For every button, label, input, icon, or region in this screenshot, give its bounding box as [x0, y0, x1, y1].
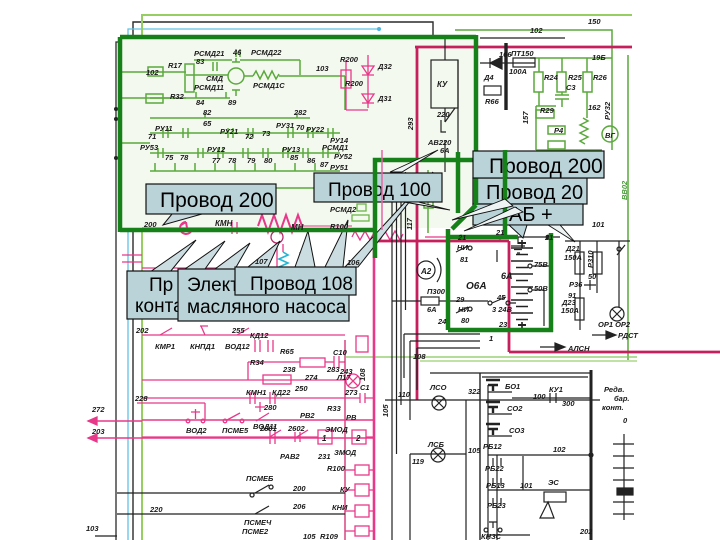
svg-text:КД12: КД12	[250, 331, 269, 340]
svg-text:23: 23	[498, 320, 508, 329]
svg-text:Редв.: Редв.	[604, 385, 624, 394]
svg-text:101: 101	[520, 481, 533, 490]
svg-text:50: 50	[588, 272, 597, 281]
svg-text:РУ53: РУ53	[140, 143, 159, 152]
svg-text:200: 200	[292, 484, 306, 493]
svg-text:С1: С1	[360, 383, 370, 392]
svg-text:КУ: КУ	[437, 80, 448, 89]
svg-text:19Б: 19Б	[592, 53, 606, 62]
svg-text:НИ: НИ	[458, 305, 469, 314]
svg-text:157: 157	[521, 111, 530, 124]
svg-text:24: 24	[437, 317, 447, 326]
svg-text:102: 102	[146, 68, 159, 77]
svg-text:А2: А2	[420, 267, 432, 276]
svg-text:РВ: РВ	[346, 413, 357, 422]
svg-text:ПСМЕЧ: ПСМЕЧ	[244, 518, 272, 527]
svg-text:ВОД11: ВОД11	[253, 422, 277, 431]
svg-text:231: 231	[317, 452, 331, 461]
svg-text:РУ31: РУ31	[276, 121, 294, 130]
svg-text:228: 228	[134, 394, 148, 403]
svg-text:46: 46	[232, 48, 242, 57]
svg-text:2: 2	[355, 434, 361, 443]
svg-text:322: 322	[468, 387, 481, 396]
svg-text:100: 100	[533, 392, 546, 401]
svg-text:АЛСН: АЛСН	[567, 344, 590, 353]
svg-text:105: 105	[468, 446, 481, 455]
svg-text:77: 77	[212, 156, 221, 165]
svg-text:101: 101	[592, 220, 605, 229]
svg-text:202: 202	[579, 527, 593, 536]
svg-text:R100: R100	[330, 222, 349, 231]
svg-text:Провод 108: Провод 108	[250, 274, 353, 295]
svg-text:Р4: Р4	[554, 126, 564, 135]
svg-text:Провод 100: Провод 100	[328, 180, 431, 201]
svg-text:РСМД22: РСМД22	[251, 48, 282, 57]
svg-text:ЭС: ЭС	[548, 478, 559, 487]
svg-text:СО2: СО2	[507, 404, 523, 413]
svg-text:РВ2: РВ2	[300, 411, 315, 420]
svg-text:103: 103	[86, 524, 99, 533]
svg-text:R33: R33	[327, 404, 342, 413]
svg-text:79: 79	[247, 156, 256, 165]
svg-text:6А: 6А	[440, 146, 450, 155]
svg-text:РУ52: РУ52	[334, 152, 353, 161]
svg-text:ПСМЕБ: ПСМЕБ	[246, 474, 274, 483]
svg-text:ПСМЕ5: ПСМЕ5	[222, 426, 249, 435]
svg-text:84: 84	[196, 98, 205, 107]
svg-text:РУ11: РУ11	[155, 124, 173, 133]
svg-text:105: 105	[303, 532, 316, 540]
svg-text:72: 72	[245, 132, 254, 141]
svg-text:РСМД1С: РСМД1С	[253, 81, 285, 90]
svg-text:108: 108	[358, 368, 367, 381]
svg-text:73: 73	[262, 129, 271, 138]
svg-text:Д21: Д21	[565, 244, 580, 253]
svg-text:81: 81	[460, 255, 468, 264]
svg-text:МН: МН	[291, 223, 304, 232]
svg-text:ПСМЕ2: ПСМЕ2	[242, 527, 269, 536]
svg-text:203: 203	[91, 427, 105, 436]
svg-text:220: 220	[149, 505, 163, 514]
svg-text:21: 21	[495, 228, 504, 237]
svg-text:75: 75	[165, 153, 174, 162]
svg-text:РУ51: РУ51	[330, 163, 348, 172]
svg-text:Д4: Д4	[483, 73, 494, 82]
svg-text:119: 119	[412, 457, 425, 466]
svg-text:РУ21: РУ21	[220, 127, 238, 136]
svg-text:21: 21	[457, 233, 466, 242]
svg-text:78: 78	[228, 156, 237, 165]
svg-text:110: 110	[398, 390, 411, 399]
svg-text:ВВ02: ВВ02	[620, 180, 629, 200]
svg-text:Р310: Р310	[586, 250, 595, 268]
svg-text:КМР1: КМР1	[155, 342, 175, 351]
svg-text:ВГ: ВГ	[605, 131, 615, 140]
svg-text:29: 29	[455, 295, 465, 304]
svg-text:293: 293	[406, 117, 415, 131]
svg-text:89: 89	[228, 98, 237, 107]
svg-text:СО3: СО3	[509, 426, 525, 435]
svg-text:87: 87	[320, 160, 329, 169]
svg-text:162: 162	[588, 103, 601, 112]
svg-text:РСМД11: РСМД11	[194, 83, 224, 92]
svg-text:45: 45	[496, 293, 506, 302]
svg-text:Пр: Пр	[149, 275, 173, 296]
svg-text:РБ13: РБ13	[486, 481, 505, 490]
svg-text:R65: R65	[280, 347, 295, 356]
svg-text:РБ22: РБ22	[485, 464, 504, 473]
svg-text:ПТ150: ПТ150	[511, 49, 534, 58]
svg-text:150А: 150А	[564, 253, 582, 262]
svg-text:ОР1 ОР2: ОР1 ОР2	[598, 320, 631, 329]
svg-text:117: 117	[405, 217, 414, 230]
svg-text:82: 82	[203, 108, 212, 117]
svg-text:R25: R25	[568, 73, 583, 82]
svg-text:105: 105	[381, 404, 390, 417]
svg-text:конта: конта	[135, 296, 184, 317]
svg-text:бар.: бар.	[614, 394, 629, 403]
svg-text:250: 250	[294, 384, 308, 393]
svg-text:РУ22: РУ22	[306, 125, 325, 134]
svg-text:R200: R200	[345, 79, 364, 88]
svg-text:КНПД1: КНПД1	[190, 342, 215, 351]
svg-text:50В: 50В	[534, 284, 548, 293]
svg-text:R200: R200	[340, 55, 359, 64]
svg-text:21: 21	[544, 233, 553, 242]
svg-text:R66: R66	[485, 97, 500, 106]
svg-text:РСМД2: РСМД2	[330, 205, 357, 214]
svg-text:100А: 100А	[509, 67, 527, 76]
svg-text:80: 80	[461, 316, 470, 325]
svg-text:107: 107	[255, 257, 268, 266]
svg-text:ЛСО: ЛСО	[429, 383, 447, 392]
svg-text:РУ12: РУ12	[207, 145, 226, 154]
svg-text:ЗМОД: ЗМОД	[334, 448, 357, 457]
svg-text:КМН: КМН	[215, 219, 233, 228]
svg-text:R34: R34	[250, 358, 265, 367]
svg-text:6А: 6А	[427, 305, 437, 314]
svg-text:282: 282	[293, 108, 307, 117]
svg-text:2602: 2602	[287, 424, 306, 433]
svg-text:ВОД2: ВОД2	[186, 426, 207, 435]
svg-text:РАВ2: РАВ2	[280, 452, 300, 461]
svg-text:КНЗС: КНЗС	[481, 532, 502, 540]
svg-text:106: 106	[347, 258, 360, 267]
svg-text:255: 255	[231, 326, 245, 335]
svg-text:Р36: Р36	[569, 280, 583, 289]
svg-text:R17: R17	[168, 61, 183, 70]
svg-text:150: 150	[588, 17, 601, 26]
svg-text:КНИ: КНИ	[332, 503, 348, 512]
svg-text:272: 272	[91, 405, 105, 414]
svg-text:103: 103	[316, 64, 329, 73]
svg-text:R32: R32	[170, 92, 185, 101]
svg-text:СМД: СМД	[206, 74, 224, 83]
svg-text:65: 65	[203, 119, 212, 128]
svg-text:ЭМОД: ЭМОД	[325, 425, 348, 434]
svg-text:3 24В: 3 24В	[492, 305, 513, 314]
svg-text:150А: 150А	[561, 306, 579, 315]
svg-text:280: 280	[263, 403, 277, 412]
svg-text:R109: R109	[320, 532, 339, 540]
svg-text:220: 220	[436, 110, 450, 119]
svg-text:R26: R26	[593, 73, 608, 82]
svg-text:РДСТ: РДСТ	[618, 331, 639, 340]
svg-text:КМН1: КМН1	[246, 388, 266, 397]
svg-text:300: 300	[562, 399, 575, 408]
svg-text:70: 70	[296, 123, 305, 132]
svg-text:1: 1	[489, 334, 493, 343]
svg-text:С3: С3	[566, 83, 576, 92]
svg-text:206: 206	[292, 502, 306, 511]
svg-text:ЛСБ: ЛСБ	[427, 440, 445, 449]
svg-text:102: 102	[530, 26, 543, 35]
svg-text:масляного насоса: масляного насоса	[187, 297, 347, 318]
svg-text:108: 108	[413, 352, 426, 361]
svg-text:75В: 75В	[534, 260, 548, 269]
svg-text:238: 238	[282, 365, 296, 374]
svg-text:78: 78	[180, 153, 189, 162]
svg-text:85: 85	[290, 153, 299, 162]
svg-text:О6А: О6А	[466, 281, 487, 292]
svg-text:конт.: конт.	[602, 403, 624, 412]
svg-text:80: 80	[264, 156, 273, 165]
svg-text:1: 1	[322, 434, 327, 443]
svg-text:200: 200	[143, 220, 157, 229]
svg-text:БО1: БО1	[505, 382, 520, 391]
svg-text:ВОД12: ВОД12	[225, 342, 251, 351]
svg-text:РБ23: РБ23	[487, 501, 506, 510]
svg-text:86: 86	[307, 156, 316, 165]
svg-text:Д31: Д31	[377, 94, 392, 103]
svg-text:С10: С10	[333, 348, 348, 357]
svg-text:КД22: КД22	[272, 388, 291, 397]
svg-text:0: 0	[623, 416, 628, 425]
svg-text:6А: 6А	[501, 271, 513, 281]
svg-text:273: 273	[344, 388, 358, 397]
svg-text:71: 71	[148, 132, 156, 141]
svg-text:НИ: НИ	[457, 243, 468, 252]
svg-text:102: 102	[553, 445, 566, 454]
svg-text:Провод 200: Провод 200	[160, 189, 274, 212]
svg-text:РБ12: РБ12	[483, 442, 502, 451]
svg-text:РСМД1: РСМД1	[322, 143, 348, 152]
svg-text:КУ: КУ	[340, 485, 351, 494]
svg-text:РУ32: РУ32	[603, 101, 612, 120]
svg-text:R24: R24	[544, 73, 559, 82]
svg-text:R100: R100	[327, 464, 346, 473]
svg-text:Д32: Д32	[377, 62, 393, 71]
svg-text:202: 202	[135, 326, 149, 335]
svg-text:83: 83	[196, 57, 205, 66]
svg-text:Л17: Л17	[336, 373, 351, 382]
svg-text:R29: R29	[540, 106, 555, 115]
svg-text:Элект: Элект	[187, 275, 239, 296]
svg-text:274: 274	[304, 373, 318, 382]
svg-text:КУ1: КУ1	[549, 385, 563, 394]
svg-text:П300: П300	[427, 287, 446, 296]
